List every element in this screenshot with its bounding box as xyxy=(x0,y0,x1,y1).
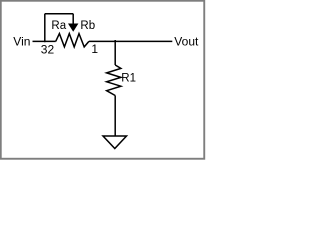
wire loop top xyxy=(45,13,73,15)
svg-text:32: 32 xyxy=(41,42,55,56)
svg-text:Ra: Ra xyxy=(51,20,66,32)
resistor R1 xyxy=(107,65,121,96)
wire R1 to ground xyxy=(114,96,116,137)
svg-text:1: 1 xyxy=(91,42,98,56)
svg-text:R1: R1 xyxy=(121,73,136,85)
node 32 (pot terminal, loop tap) xyxy=(44,14,46,43)
wire wiper stem xyxy=(72,14,74,24)
ground xyxy=(103,136,127,149)
wire pot to Vout xyxy=(89,40,172,42)
potentiometer Ra/Rb body xyxy=(56,34,89,47)
wiper arrow xyxy=(68,24,78,32)
svg-text:Vout: Vout xyxy=(174,35,199,49)
wire junction down to R1 xyxy=(114,40,116,65)
svg-text:Rb: Rb xyxy=(80,20,95,32)
border frame xyxy=(1,1,205,159)
wire Vin to potentiometer xyxy=(33,40,56,42)
svg-text:Vin: Vin xyxy=(13,35,30,49)
